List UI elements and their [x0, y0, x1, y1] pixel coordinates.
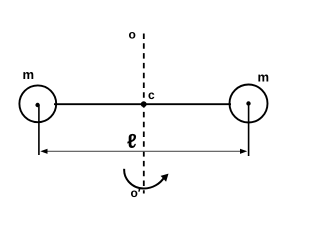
mass circle left [19, 85, 56, 122]
label m (left mass) [23, 72, 33, 79]
mass circle right [230, 85, 268, 123]
arrowhead left of dimension line [40, 149, 47, 154]
wire: left extension line down from mass center [38, 105, 40, 155]
node: left mass center dot [35, 103, 39, 107]
arrowhead of rotation arc [161, 174, 169, 182]
label l (length symbol) [127, 134, 136, 148]
wire: right extension line down from mass center [248, 104, 250, 156]
node C: pivot dot at rod center [141, 101, 147, 107]
dimension line for length l [45, 150, 242, 152]
label prime of o' [138, 189, 140, 192]
label m (right mass) [258, 74, 268, 81]
label o (top of axis) [129, 32, 135, 39]
node: right mass center dot [246, 101, 250, 105]
axis o-o' dashed line [143, 34, 145, 194]
label o' (bottom of axis) [131, 191, 137, 198]
label c (pivot) [148, 93, 154, 100]
rod between masses [54, 103, 231, 105]
rotation arc arrow around axis [124, 169, 164, 189]
arrowhead right of dimension line [240, 149, 247, 154]
